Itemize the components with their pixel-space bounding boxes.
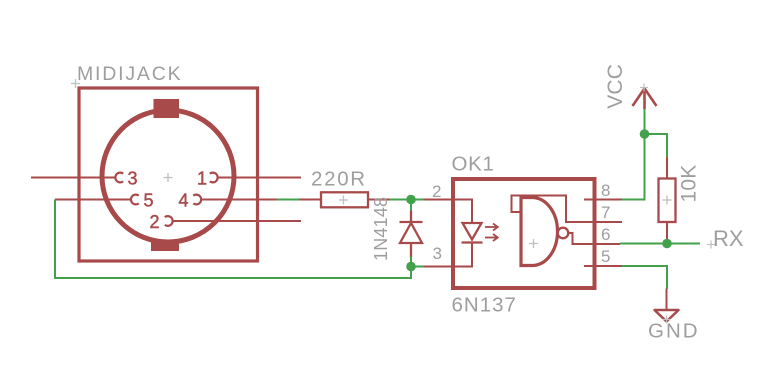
optocoupler U1 OK1 box: [453, 179, 595, 288]
svg-text:GND: GND: [648, 320, 700, 343]
svg-text:VCC: VCC: [604, 64, 627, 109]
junction node top of D1: [406, 195, 416, 205]
connector J1 MIDIJACK outline box: [79, 88, 258, 261]
resistor R2 10K top pin: [666, 157, 668, 179]
svg-text:10K: 10K: [678, 165, 701, 203]
connector J1 bottom notch: [151, 241, 179, 251]
connector J1 top key notch: [154, 99, 180, 118]
origin cross gate: [529, 239, 538, 248]
pin contact arc 1: [210, 173, 218, 183]
origin cross GND: [663, 316, 671, 324]
diode D1 1N4148: [400, 211, 423, 258]
origin cross R1: [339, 196, 348, 205]
svg-text:2: 2: [432, 182, 441, 201]
svg-text:1N4148: 1N4148: [371, 197, 391, 261]
wire net D1 to OK1 pin3: [411, 266, 425, 268]
wire D1 bottom stub: [410, 257, 412, 267]
pin 5 lead: [584, 265, 622, 267]
wire net pin6 RX: [620, 243, 700, 245]
pin contact arc 4: [193, 195, 201, 205]
LED inside OK1: [462, 223, 483, 243]
origin cross RX: [707, 241, 715, 249]
wire pin 1 lead: [217, 177, 301, 179]
svg-text:5: 5: [601, 247, 610, 266]
junction node RX: [662, 239, 672, 249]
NAND gate body of OK1: [521, 198, 558, 266]
resistor R1 right pin: [368, 199, 390, 201]
light emission arrows: [485, 224, 498, 242]
svg-text:MIDIJACK: MIDIJACK: [77, 63, 182, 85]
pin contact arc 3: [115, 173, 123, 183]
wire net pin5 to GND: [622, 266, 667, 289]
svg-text:6N137: 6N137: [452, 294, 517, 317]
pin contact arc 2: [165, 216, 173, 226]
origin cross MIDIJACK: [71, 79, 80, 88]
gate enable input path to pin 7: [512, 196, 623, 223]
svg-text:4: 4: [179, 191, 189, 211]
connector J1 DIN circle: [102, 110, 234, 242]
svg-text:RX: RX: [713, 226, 744, 251]
svg-text:7: 7: [601, 203, 610, 222]
svg-text:3: 3: [128, 169, 138, 189]
pin 8 lead: [584, 199, 622, 201]
output bubble: [558, 228, 569, 239]
svg-text:8: 8: [601, 181, 610, 200]
resistor R2 10K body: [659, 179, 676, 223]
output path to pin 6: [568, 233, 620, 244]
svg-text:OK1: OK1: [452, 153, 495, 176]
resistor R2 bottom pin: [666, 222, 668, 244]
wire pin 3 lead: [31, 177, 116, 179]
pin contact arc 5: [131, 195, 139, 205]
wire pin 2 lead: [172, 220, 301, 222]
svg-text:3: 3: [433, 244, 442, 263]
origin cross VCC: [640, 84, 648, 92]
junction node VCC branch: [640, 129, 650, 139]
svg-text:6: 6: [601, 225, 610, 244]
svg-text:5: 5: [144, 191, 154, 211]
junction node bottom of D1: [406, 262, 416, 272]
wire pin 5 lead: [55, 199, 132, 201]
wire net R1 to OK1 pin2: [390, 199, 425, 201]
resistor R1 220R body: [321, 192, 368, 207]
pin 2 lead and LED anode path: [424, 200, 473, 224]
wire D1 top stub: [410, 200, 412, 212]
svg-text:1: 1: [197, 169, 207, 189]
supply symbol VCC: [633, 89, 657, 110]
ground symbol GND: [666, 289, 668, 311]
wire net jack4 to R1: [277, 199, 300, 201]
origin cross R2: [663, 196, 672, 205]
pin 3 lead and LED cathode path: [424, 243, 473, 267]
svg-text:220R: 220R: [311, 168, 367, 191]
resistor R1 220R left pin: [299, 199, 321, 201]
wire net pin5 to ground rail: [55, 200, 411, 279]
wire net VCC branch to R2: [645, 134, 668, 158]
origin cross J1 center: [164, 173, 173, 182]
svg-text:2: 2: [150, 212, 160, 232]
wire net pin8 to VCC: [622, 109, 645, 200]
wire pin 4 lead: [201, 199, 278, 201]
